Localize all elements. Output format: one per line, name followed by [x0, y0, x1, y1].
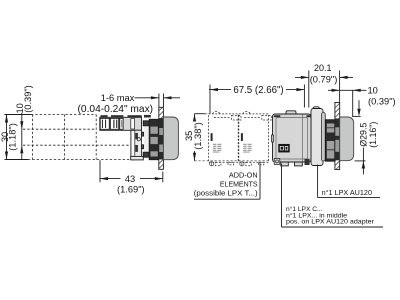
svg-text:(possible LPX T...): (possible LPX T...) — [194, 188, 258, 197]
svg-text:10: 10 — [368, 86, 378, 96]
svg-text:(1.16"): (1.16") — [368, 122, 378, 148]
svg-text:67.5 (2.66"): 67.5 (2.66") — [233, 85, 283, 96]
svg-text:pos. on LPX AU120 adapter: pos. on LPX AU120 adapter — [286, 219, 375, 226]
svg-text:(1.38"): (1.38") — [193, 122, 203, 150]
svg-text:1-6 max: 1-6 max — [101, 93, 135, 103]
svg-text:n°1 LPX AU120: n°1 LPX AU120 — [322, 188, 372, 197]
svg-text:20.1: 20.1 — [314, 63, 332, 73]
svg-text:(0.04-0.24" max): (0.04-0.24" max) — [78, 104, 154, 115]
svg-text:(1.69"): (1.69") — [117, 185, 145, 195]
svg-text:(1.18"): (1.18") — [7, 123, 17, 151]
svg-text:43: 43 — [125, 174, 135, 184]
svg-text:(0.39"): (0.39") — [368, 96, 396, 106]
svg-text:(0.39"): (0.39") — [23, 85, 33, 113]
svg-text:ADD-ON: ADD-ON — [229, 170, 258, 179]
svg-text:(0.79"): (0.79") — [310, 75, 338, 85]
svg-text:ELEMENTS: ELEMENTS — [220, 179, 258, 188]
